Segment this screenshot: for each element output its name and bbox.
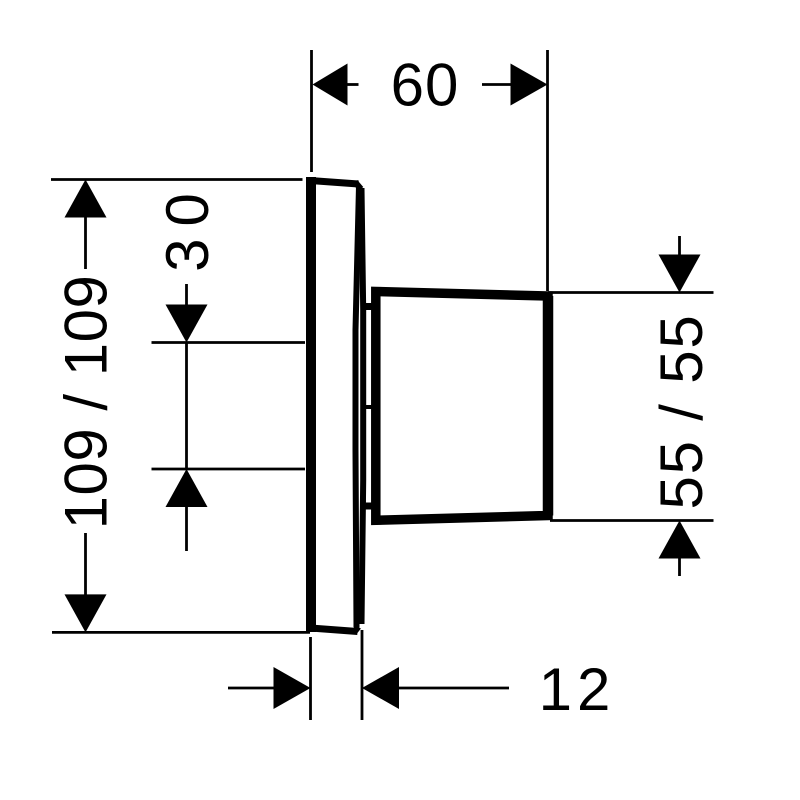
handle (truncated cone, side view) [376,292,548,521]
svg-text:12: 12 [539,656,616,723]
svg-text:60: 60 [391,52,460,119]
stem / sleeve between plate and handle [361,304,380,508]
extension line right [546,50,549,291]
escutcheon plate (side profile) [310,177,363,632]
tails [347,83,359,86]
svg-text:55 / 55: 55 / 55 [648,313,715,509]
svg-text:109 / 109: 109 / 109 [53,275,120,530]
extension line left [310,50,313,172]
svg-text:30: 30 [154,181,221,272]
